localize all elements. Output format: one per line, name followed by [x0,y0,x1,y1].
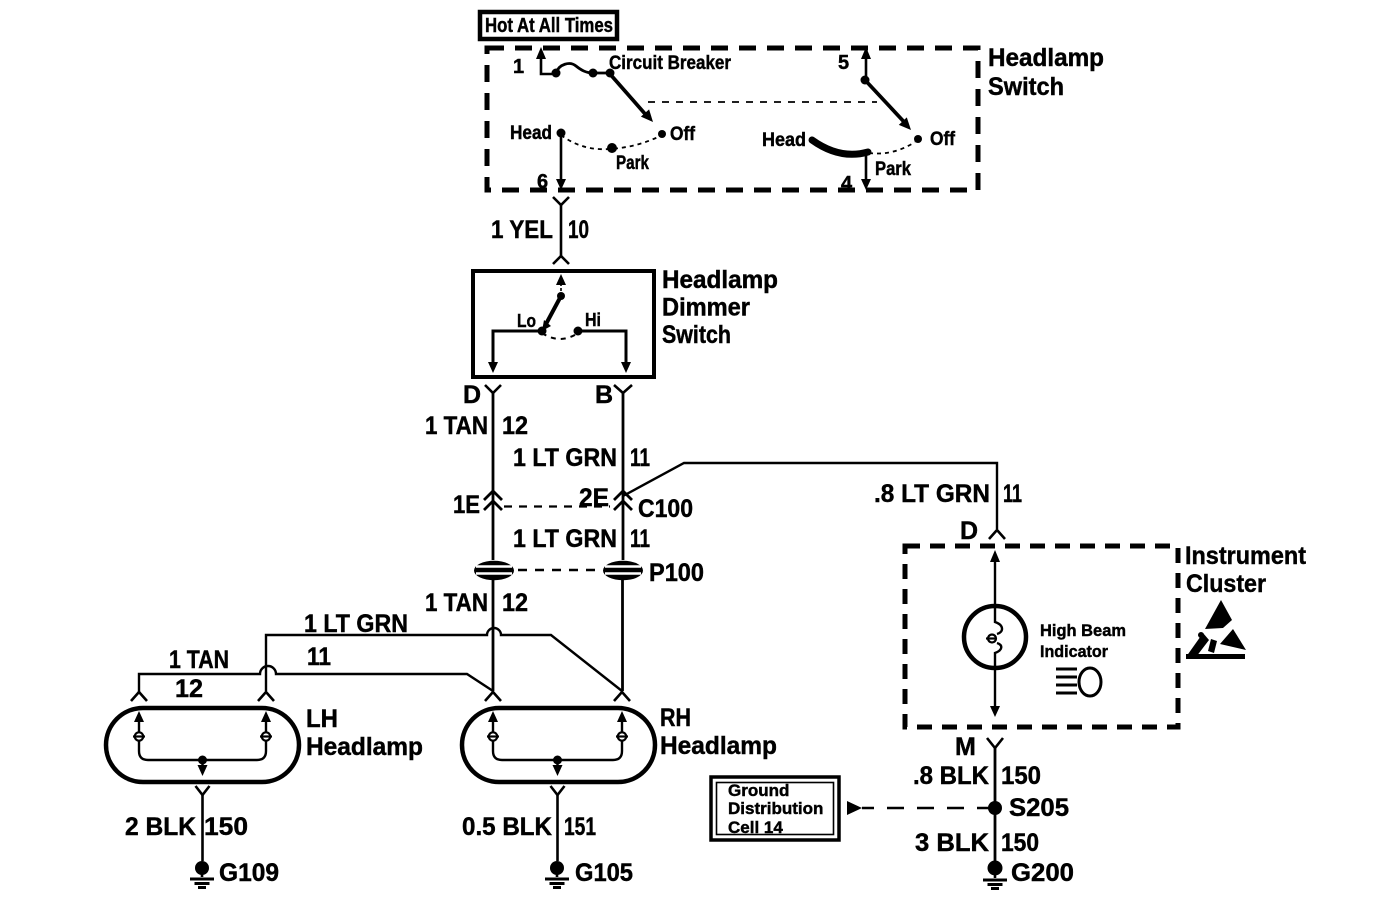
pin 6 wire with arrow [556,133,566,190]
dimmer Lo output leg [488,331,542,373]
svg-text:Cluster: Cluster [1186,570,1266,598]
svg-text:11: 11 [630,444,650,472]
svg-text:Lo: Lo [517,311,536,331]
svg-text:Park: Park [616,153,649,174]
splice S205 [988,801,1002,815]
svg-text:0.5 BLK: 0.5 BLK [462,813,552,841]
svg-text:Headlamp: Headlamp [662,266,778,294]
svg-text:Indicator: Indicator [1040,642,1108,661]
LH headlamp body [106,708,299,782]
svg-text:1 LT GRN: 1 LT GRN [513,444,617,472]
headlamp dimmer switch label [662,266,778,349]
svg-text:12: 12 [502,589,528,617]
instrument cluster dashed box [905,546,1178,727]
cluster input arrow [990,550,1000,606]
wire D (1 TAN 12) upper [492,393,495,560]
svg-text:Off: Off [930,129,956,150]
svg-text:150: 150 [204,813,248,841]
wire 3 BLK 150 [994,808,997,861]
wire 0.5 BLK 151 [556,795,559,861]
dimmer input arrow [556,274,566,293]
node Hi [574,327,583,336]
LH lamp low-beam filament [133,711,200,760]
RH lamp low-beam filament [487,711,555,760]
reference arrow to S205 [847,801,989,815]
svg-text:12: 12 [175,675,203,703]
pin M connector [987,738,1003,748]
wire .8 BLK 150 [994,748,997,802]
svg-text:Cell 14: Cell 14 [728,818,783,837]
svg-text:B: B [595,381,613,409]
svg-text:3 BLK: 3 BLK [915,829,989,857]
svg-text:151: 151 [564,813,596,841]
dashed throw arc Lo-Hi [542,333,578,339]
svg-text:1E: 1E [453,491,480,519]
svg-text:Hot At All Times: Hot At All Times [485,15,613,37]
svg-text:11: 11 [1003,480,1022,508]
svg-text:P100: P100 [649,559,704,587]
ground G105 [545,861,569,888]
svg-text:Instrument: Instrument [1185,542,1307,570]
node Head (left) [557,129,566,138]
svg-text:Dimmer: Dimmer [662,294,750,322]
pin B connector [614,385,632,393]
svg-text:Park: Park [875,159,911,180]
svg-text:M: M [955,733,976,761]
pin 5 arrow [861,47,871,80]
svg-text:12: 12 [502,412,528,440]
grommet P100 left [474,561,514,581]
dimmer Hi output leg [578,331,631,373]
ground distribution reference box [711,777,839,840]
svg-text:D: D [960,517,978,545]
dashed throw arc to Off (right) [869,142,915,154]
svg-text:1 LT GRN: 1 LT GRN [513,525,617,553]
LH lamp high-beam filament [205,711,272,760]
svg-text:High Beam: High Beam [1040,621,1126,640]
node Park (left) [607,143,617,153]
grommet P100 right [603,561,643,581]
label High Beam Indicator [1040,621,1126,661]
instrument cluster label [1185,542,1307,598]
mechanical link dashed line [648,101,877,103]
svg-text:4: 4 [841,173,853,195]
wire B (1 LT GRN 11) upper [622,393,625,560]
svg-text:Headlamp: Headlamp [306,733,423,761]
svg-text:RH: RH [660,704,691,732]
svg-text:Switch: Switch [988,73,1064,101]
ground G109 [190,861,214,888]
switch arm left (breaker to Off) [610,74,653,122]
svg-text:Headlamp: Headlamp [988,44,1104,72]
svg-text:1 YEL: 1 YEL [491,216,553,244]
wire 2 BLK 150 [201,795,204,861]
svg-text:2 BLK: 2 BLK [125,813,196,841]
dimmer wiper pivot node [557,292,565,300]
RH lamp ground arrow [553,760,563,776]
svg-text:1 TAN: 1 TAN [169,646,229,674]
ESD sensitive symbol [1186,600,1246,659]
svg-text:1 LT GRN: 1 LT GRN [304,610,408,638]
svg-text:C100: C100 [638,495,693,523]
svg-text:11: 11 [307,643,331,671]
LH lamp low-beam terminal connector [131,692,147,701]
wire branch to instrument cluster (.8 LT GRN 11) [623,463,997,529]
headlamp switch label [988,44,1104,101]
pin D connector [485,385,501,393]
svg-text:Head: Head [510,123,552,144]
svg-text:Headlamp: Headlamp [660,732,777,760]
svg-text:G109: G109 [219,859,279,887]
switch arm right (pin5 to Off) [865,80,911,130]
dashed connector line C100 [504,505,610,507]
pin 1 arrow [536,47,552,74]
node Off (right) [914,135,922,143]
svg-text:11: 11 [630,525,650,553]
connector C100 1E [484,491,502,510]
svg-text:2E: 2E [579,484,609,512]
wire 1 YEL 10 (switch to dimmer) [553,197,569,264]
svg-text:G200: G200 [1011,859,1074,887]
headlamp switch dashed box [487,48,978,190]
ground G200 [983,861,1007,889]
svg-text:1 TAN: 1 TAN [425,589,488,617]
LH lamp high-beam terminal connector [258,692,274,701]
wire D (1 TAN 12) lower to RH lamp [492,580,495,691]
node Off (left) [658,130,666,138]
svg-text:Off: Off [670,124,696,145]
high beam icon [1056,668,1101,696]
dashed throw arc Head-Park-Off (left) [561,135,660,149]
cluster output arrow [990,668,1000,717]
connector C100 2E [614,491,632,510]
LH lamp ground arrow [198,760,208,776]
svg-text:Circuit Breaker: Circuit Breaker [609,53,732,74]
svg-text:.8 LT GRN: .8 LT GRN [874,480,990,508]
svg-text:Distribution: Distribution [728,799,823,818]
svg-text:150: 150 [1001,829,1039,857]
fuse box label "Hot At All Times" [480,12,617,39]
svg-text:Hi: Hi [585,310,601,330]
node pin5 [861,76,870,85]
dashed connector line P100 [518,569,600,572]
svg-text:LH: LH [306,705,338,733]
svg-text:S205: S205 [1009,794,1069,822]
wire LT GRN to LH lamp (line A with hop) [266,628,622,691]
svg-text:D: D [463,381,481,409]
LH headlamp label [306,705,423,761]
wiper arc thick (right, in Head position) [812,140,868,154]
svg-text:Ground: Ground [728,781,789,800]
high beam indicator bulb [964,606,1026,668]
wire B (1 LT GRN) lower to RH lamp [621,580,624,691]
RH headlamp body [462,708,655,782]
svg-text:1 TAN: 1 TAN [425,412,488,440]
svg-text:6: 6 [537,171,548,193]
pin D connector (cluster) [989,530,1005,539]
wire TAN to LH lamp (line B with hop) [139,666,493,692]
circuit breaker [552,64,615,78]
RH lamp low-beam terminal connector [485,692,501,701]
RH lamp common ground node [553,756,562,765]
svg-text:G105: G105 [575,859,633,887]
svg-text:Switch: Switch [662,321,731,349]
LH lamp common ground node [198,756,207,765]
svg-text:Head: Head [762,130,806,151]
RH headlamp label [660,704,777,760]
LH lamp ground connector [196,786,210,795]
RH lamp high-beam terminal connector [614,692,630,701]
headlamp dimmer switch box [473,271,654,377]
dimmer wiper arm [542,296,561,331]
svg-text:150: 150 [1001,762,1041,790]
svg-text:5: 5 [838,52,849,74]
pin 4 wire with arrow [861,152,871,190]
svg-text:10: 10 [568,216,589,244]
RH lamp ground connector [551,786,565,795]
RH lamp high-beam filament [560,711,628,760]
svg-text:.8 BLK: .8 BLK [913,762,989,790]
node Lo [538,327,547,336]
svg-text:1: 1 [513,56,524,78]
